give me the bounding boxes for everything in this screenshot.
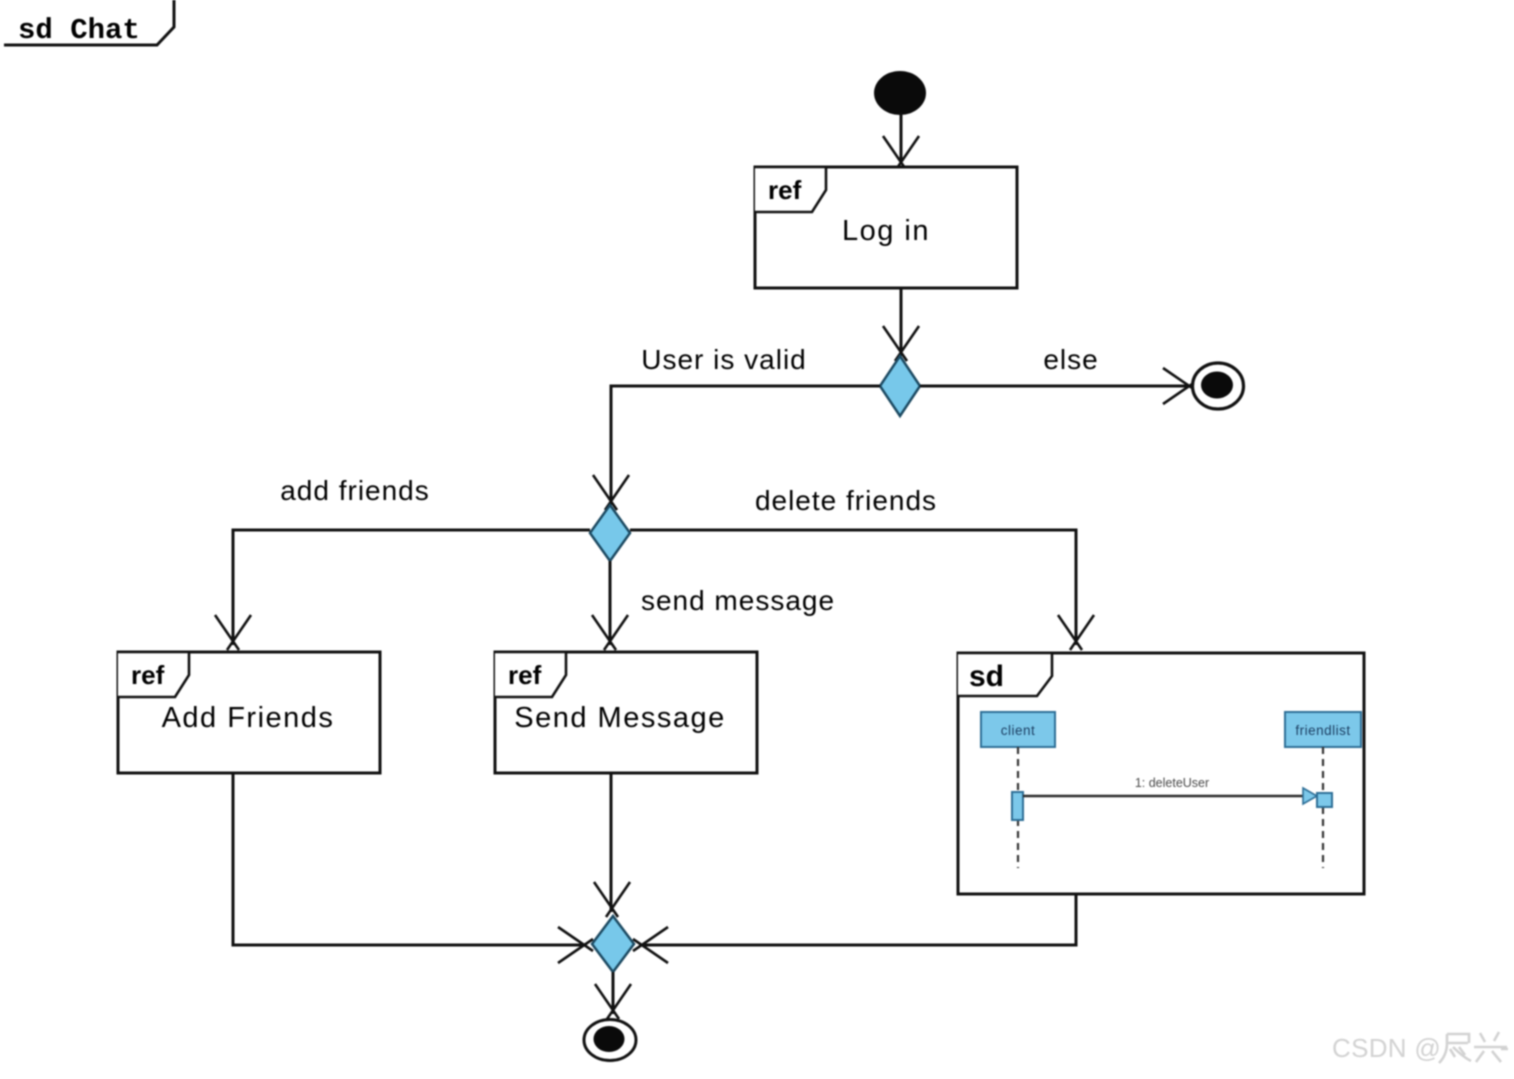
svg-text:ref: ref	[768, 175, 802, 205]
lifeline head client	[981, 712, 1055, 747]
svg-text:delete friends: delete friends	[755, 485, 937, 516]
svg-text:sd: sd	[969, 660, 1004, 693]
svg-text:sd Chat: sd Chat	[18, 14, 140, 47]
svg-text:send message: send message	[641, 585, 835, 616]
wire Send Message to merge	[610, 773, 613, 912]
lifeline friendlist dashed	[1322, 747, 1324, 868]
arrowhead into merge left	[558, 927, 593, 963]
wire Log in to decision1	[900, 288, 903, 356]
svg-text:User is valid: User is valid	[641, 344, 806, 375]
arrowhead into decision2 top	[593, 475, 629, 510]
sd frame (sequence diagram)	[958, 653, 1364, 894]
final node 1	[1193, 363, 1244, 409]
lifeline head friendlist	[1285, 712, 1361, 747]
wire Add Friends to merge	[233, 773, 587, 945]
arrowhead into Send Message	[592, 615, 628, 650]
svg-text:1: deleteUser: 1: deleteUser	[1135, 776, 1209, 790]
svg-text:add friends: add friends	[280, 475, 430, 506]
arrowhead into decision1	[883, 326, 919, 361]
wire initial to Log in	[900, 113, 903, 164]
ref Send Message box	[495, 652, 757, 773]
svg-text:CSDN @: CSDN @	[1332, 1033, 1441, 1063]
svg-text:else: else	[1043, 344, 1098, 375]
svg-text:Log in: Log in	[842, 215, 930, 247]
wire decision2 to sd frame	[630, 530, 1076, 645]
final node 2	[584, 1020, 636, 1061]
frame tab sd Chat	[4, 0, 174, 47]
svg-text:Send Message: Send Message	[514, 702, 725, 734]
wire decision1 to decision2 (left, down)	[611, 386, 880, 505]
activation bar friendlist	[1317, 793, 1332, 807]
svg-text:friendlist: friendlist	[1295, 723, 1350, 738]
lifeline client dashed	[1017, 747, 1019, 868]
arrowhead into final1	[1163, 368, 1198, 404]
ref Add Friends box	[118, 652, 380, 773]
arrowhead into Add Friends	[215, 615, 251, 650]
arrowhead into merge right	[633, 927, 668, 963]
wire sd frame to merge	[639, 894, 1076, 945]
watermark CJK 尽兴	[1439, 1032, 1508, 1063]
ref Log in box	[755, 167, 1017, 288]
message 1: deleteUser	[1023, 776, 1317, 804]
arrowhead into final2	[595, 984, 631, 1019]
arrowhead into sd frame	[1058, 615, 1094, 650]
activation bar client	[1012, 792, 1023, 820]
initial node	[874, 71, 926, 115]
decision2 diamond	[590, 505, 630, 561]
svg-text:client: client	[1001, 723, 1036, 738]
merge diamond	[592, 916, 634, 972]
wire decision2 to Add Friends	[233, 530, 590, 645]
svg-text:ref: ref	[131, 660, 165, 690]
wire decision1 to final1 (right)	[920, 385, 1190, 388]
arrowhead into Log in	[883, 136, 919, 171]
wire decision2 to Send Message	[609, 561, 612, 645]
arrowhead into merge top	[594, 882, 630, 917]
decision1 diamond	[880, 356, 920, 416]
svg-text:Add Friends: Add Friends	[162, 702, 335, 734]
svg-text:ref: ref	[508, 660, 542, 690]
wire merge to final2	[612, 972, 615, 1014]
